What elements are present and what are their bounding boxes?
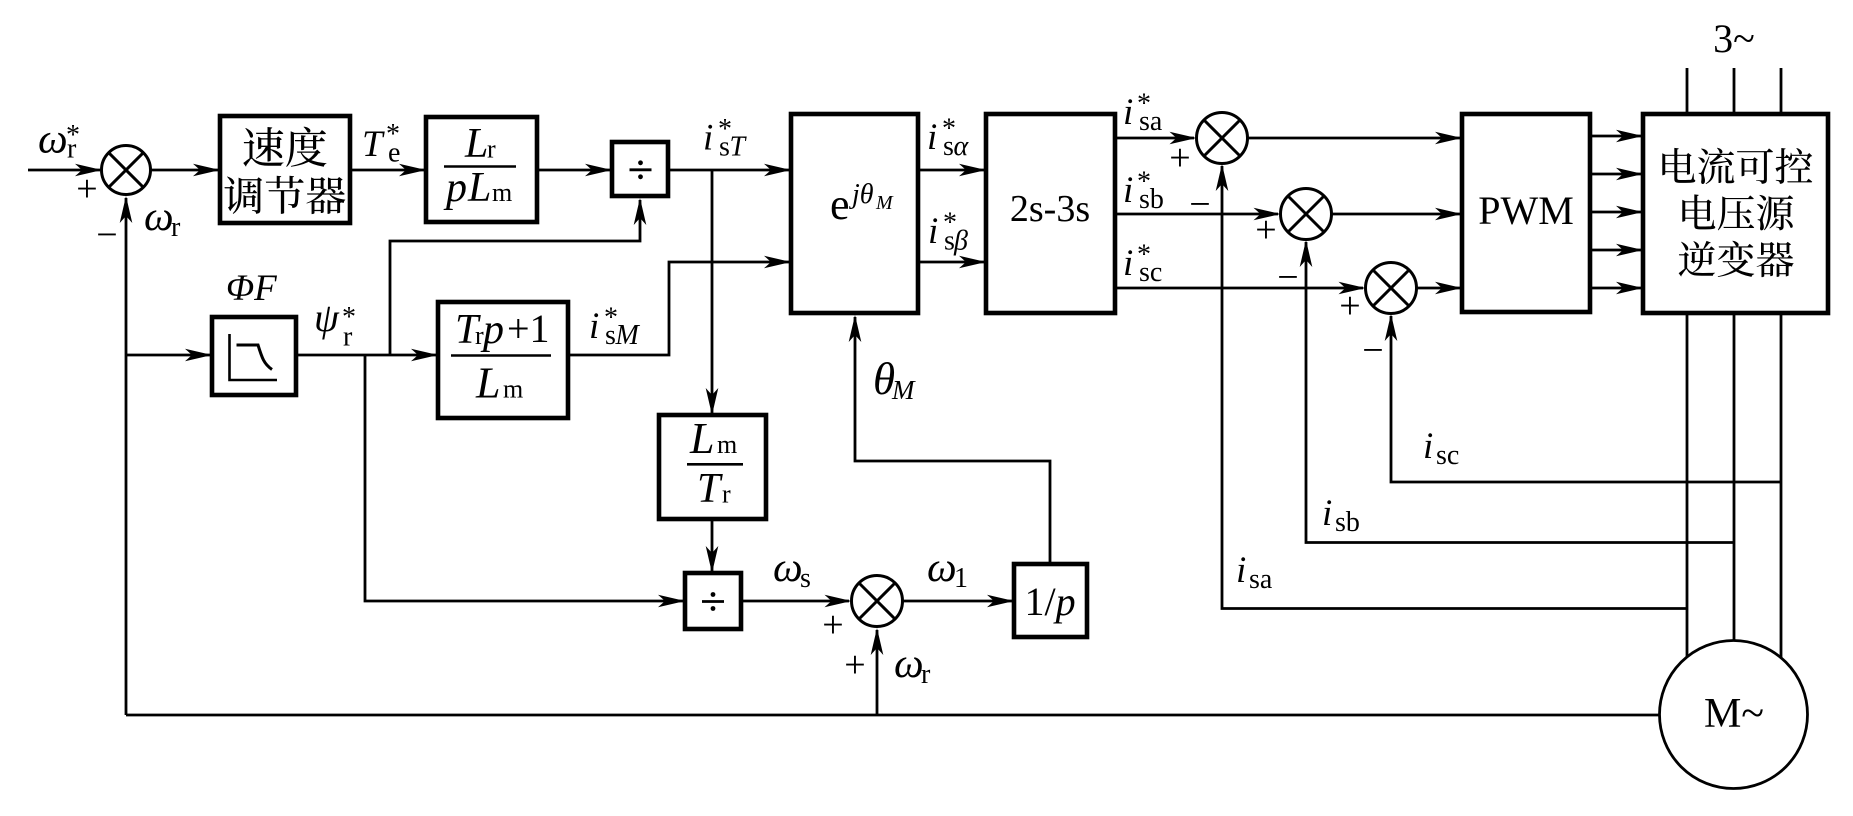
label is-beta-star: [928, 208, 968, 257]
label divider2 sign: [702, 592, 724, 611]
wire psi-r line: [296, 349, 438, 362]
label omega-1: [927, 545, 968, 594]
label fraction Lm/Tr: [687, 414, 743, 512]
svg-text:ω: ω: [894, 641, 924, 687]
wire isc feedback: [1385, 314, 1781, 482]
label omega-r at Sw: [894, 641, 931, 690]
label minus S1: [96, 214, 117, 256]
label inverter text row1: [1662, 148, 1812, 184]
svg-text:sa: sa: [1139, 106, 1163, 137]
wire omega-1: [903, 595, 1015, 608]
wire speed feedback vertical: [120, 196, 133, 715]
svg-text:jθ: jθ: [849, 179, 874, 210]
svg-text:sc: sc: [1139, 257, 1162, 288]
svg-text:ΦF: ΦF: [226, 268, 277, 309]
wire bottom feedback horizontal: [126, 714, 1660, 717]
label plus Sa: [1169, 137, 1190, 179]
label isb-star: [1123, 167, 1164, 216]
svg-text:r: r: [343, 322, 353, 353]
svg-text:ω: ω: [773, 545, 803, 591]
svg-text:L: L: [689, 414, 714, 463]
svg-text:p: p: [480, 307, 504, 353]
summing junction Sb: [1281, 189, 1332, 240]
label plus Sw bottom: [844, 644, 865, 686]
svg-text:1/p: 1/p: [1024, 579, 1075, 624]
wires PWM to inverter: [1590, 130, 1643, 295]
svg-text:i: i: [703, 118, 713, 159]
label psi-r-star: [314, 295, 356, 353]
label 3-phase: [1713, 16, 1755, 61]
svg-text:sb: sb: [1335, 507, 1360, 538]
svg-text:−: −: [96, 214, 117, 256]
summing junction Sa: [1197, 113, 1248, 164]
summing junction S1: [102, 146, 151, 195]
svg-text:i: i: [1236, 550, 1246, 591]
label PhiF: [226, 268, 277, 309]
label isM-star: [589, 303, 641, 352]
label minus Sa: [1189, 184, 1210, 226]
svg-text:2s-3s: 2s-3s: [1010, 188, 1090, 230]
svg-text:1: 1: [954, 563, 968, 594]
wire psi branch up to divider1: [390, 198, 646, 355]
block speed regulator box: [220, 116, 350, 223]
label inverter text row2: [1682, 194, 1793, 230]
label isa feedback: [1236, 550, 1273, 595]
svg-text:+1: +1: [507, 306, 550, 351]
svg-text:+: +: [1169, 137, 1190, 179]
svg-text:β: β: [953, 226, 968, 257]
svg-text:M~: M~: [1704, 691, 1764, 737]
block Lr/pLm: [426, 117, 537, 222]
wire Lr/pLm to divider1: [537, 164, 612, 177]
svg-text:−: −: [1277, 257, 1298, 299]
label fraction Lr/pLm: [443, 121, 516, 211]
wire isa-star to Sa: [1115, 132, 1197, 145]
wire isT branch down to Lm/Tr: [706, 170, 719, 415]
svg-text:3~: 3~: [1713, 16, 1755, 61]
wire isb-star to Sb: [1115, 208, 1281, 221]
block 2s-3s: [986, 114, 1115, 313]
svg-text:M: M: [891, 375, 916, 405]
svg-text:i: i: [1123, 243, 1133, 284]
label divider1 sign: [630, 160, 652, 179]
svg-text:L: L: [475, 359, 500, 408]
wire isM to ejtheta: [568, 256, 791, 355]
svg-text:L: L: [467, 165, 491, 211]
block Trp+1/Lm: [438, 302, 568, 418]
svg-text:s: s: [719, 132, 730, 163]
svg-text:M: M: [615, 320, 641, 351]
label inverter text row3: [1679, 241, 1794, 277]
svg-text:sb: sb: [1139, 184, 1164, 215]
label isc feedback: [1423, 426, 1459, 471]
motor M circle: [1660, 641, 1808, 789]
label omega-r at S1: [144, 194, 181, 243]
svg-text:L: L: [464, 121, 488, 167]
label Te-star: [362, 119, 400, 169]
svg-text:m: m: [492, 178, 512, 207]
wire is-alpha: [918, 164, 986, 177]
block Lm/Tr: [659, 415, 766, 519]
svg-text:+: +: [1339, 285, 1360, 327]
label minus Sc: [1362, 330, 1383, 372]
label isT-star: [703, 114, 748, 163]
label speed regulator text row2: [224, 176, 345, 214]
block PhiF function: [212, 317, 296, 395]
label plus Sc: [1339, 285, 1360, 327]
svg-text:ω: ω: [144, 194, 174, 240]
summing junction Sc: [1366, 263, 1417, 314]
summing junction S-omega: [852, 576, 903, 627]
svg-text:i: i: [928, 211, 938, 252]
svg-text:r: r: [171, 212, 181, 243]
label speed regulator text row1: [243, 127, 326, 167]
wire psi branch down to divider2: [365, 355, 685, 607]
svg-text:T: T: [362, 124, 385, 165]
wire isa feedback: [1216, 164, 1687, 609]
svg-text:T: T: [697, 466, 723, 512]
svg-text:e: e: [830, 180, 850, 229]
label omega-s: [773, 545, 811, 594]
svg-text:+: +: [822, 604, 843, 646]
svg-text:i: i: [1123, 92, 1133, 133]
svg-text:+: +: [76, 168, 97, 210]
svg-text:ω: ω: [38, 117, 68, 163]
block divider2: [685, 573, 741, 629]
svg-text:+: +: [844, 644, 865, 686]
wire is-beta: [918, 256, 986, 269]
wire omega-r into S-omega: [871, 628, 884, 715]
svg-text:α: α: [954, 131, 970, 162]
svg-text:i: i: [1423, 426, 1433, 467]
svg-text:p: p: [443, 165, 467, 211]
svg-text:−: −: [1189, 184, 1210, 226]
wire isb feedback: [1300, 240, 1734, 543]
label 2s-3s: [1010, 188, 1090, 230]
wire Te to Lr/pLm: [350, 164, 426, 177]
label plus S1: [76, 168, 97, 210]
svg-text:m: m: [717, 430, 737, 459]
wire phase C to motor: [1780, 313, 1783, 659]
svg-text:ψ: ψ: [314, 295, 340, 340]
svg-text:s: s: [800, 563, 811, 594]
wire branch to PhiF: [126, 349, 212, 362]
svg-text:i: i: [1322, 493, 1332, 534]
svg-text:r: r: [67, 134, 77, 165]
wire Sc to PWM: [1417, 282, 1463, 295]
svg-text:PWM: PWM: [1478, 188, 1574, 233]
label M~ motor: [1704, 691, 1764, 737]
label isa-star: [1123, 89, 1163, 138]
svg-text:sa: sa: [1249, 564, 1273, 595]
wire phase A to motor: [1686, 313, 1689, 658]
label plus Sb: [1255, 209, 1276, 251]
svg-text:m: m: [503, 375, 523, 404]
svg-text:r: r: [921, 659, 931, 690]
svg-text:+: +: [1255, 209, 1276, 251]
label minus Sb: [1277, 257, 1298, 299]
block divider1: [612, 142, 668, 196]
wire S1 to speed regulator: [151, 164, 221, 177]
label thetaM: [873, 354, 916, 405]
wire omega-r-star input: [28, 164, 102, 177]
svg-text:r: r: [722, 480, 731, 509]
svg-text:sc: sc: [1436, 440, 1459, 471]
wire isc-star to Sc: [1115, 282, 1366, 295]
block inverter: [1643, 114, 1828, 313]
wire Sb to PWM: [1332, 208, 1463, 221]
svg-text:i: i: [1123, 170, 1133, 211]
svg-text:i: i: [589, 306, 599, 347]
label e-jthetaM: [830, 179, 894, 229]
svg-text:s: s: [943, 131, 954, 162]
svg-text:i: i: [927, 117, 937, 158]
svg-text:M: M: [875, 192, 894, 214]
wire Sa to PWM: [1248, 132, 1463, 145]
svg-text:ω: ω: [927, 545, 957, 591]
wire omega-s: [741, 595, 852, 608]
label plus Sw left: [822, 604, 843, 646]
label isb feedback: [1322, 493, 1360, 538]
label 1/p: [1024, 579, 1075, 624]
wire Lm/Tr to divider2: [706, 519, 719, 573]
label isc-star: [1123, 240, 1162, 289]
wire 3-phase supply lines: [1687, 68, 1781, 114]
block ejthetaM: [791, 114, 918, 313]
svg-text:T: T: [730, 132, 748, 163]
svg-text:s: s: [605, 320, 616, 351]
label is-alpha-star: [927, 114, 970, 163]
svg-text:−: −: [1362, 330, 1383, 372]
block 1/p: [1014, 564, 1087, 637]
wire phase B to motor: [1733, 313, 1736, 642]
label PWM: [1478, 188, 1574, 233]
wire thetaM to ejtheta: [849, 315, 1050, 564]
label fraction Trp+1/Lm: [451, 306, 551, 408]
wire isT divider1 to ejtheta: [668, 164, 791, 177]
svg-text:r: r: [487, 135, 496, 164]
block PWM: [1462, 114, 1590, 312]
svg-text:e: e: [388, 138, 400, 169]
label omega-r-star: [38, 117, 80, 165]
